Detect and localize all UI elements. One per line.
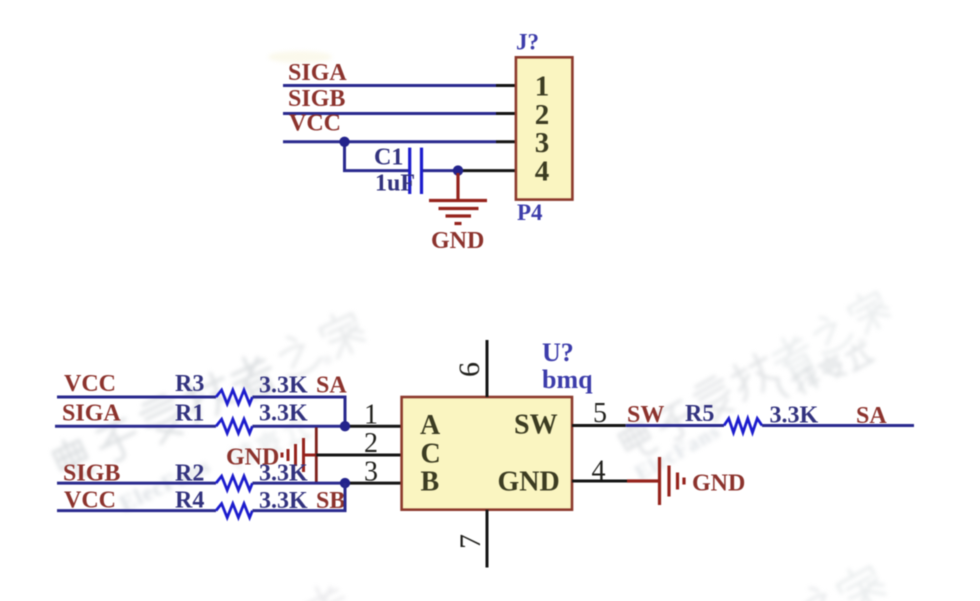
wire SW to R5	[626, 424, 724, 427]
svg-text:3: 3	[364, 457, 378, 488]
svg-text:SA: SA	[316, 373, 347, 399]
watermark fragment bottom left	[298, 579, 353, 601]
pin 4 stub of J?	[458, 169, 516, 172]
svg-text:VCC: VCC	[64, 371, 116, 397]
watermark CJK line left	[51, 306, 369, 483]
pin 6 stub (top)	[486, 340, 489, 397]
component U? body	[402, 397, 572, 510]
resistor R2	[216, 476, 252, 490]
watermark CJK line right	[616, 286, 894, 463]
connector J? body	[516, 57, 573, 199]
pin 2 stub of J?	[496, 112, 516, 115]
svg-text:B: B	[421, 467, 440, 498]
wire SIGA to J? pin 1	[283, 84, 496, 87]
svg-text:C: C	[421, 439, 441, 470]
pin 3 stub of U?	[345, 482, 402, 485]
resistor R3	[216, 390, 252, 404]
svg-text:1uF: 1uF	[375, 171, 415, 197]
wire R1 to junction	[252, 425, 345, 428]
wire C1 to pin4 node	[423, 169, 458, 172]
svg-text:R2: R2	[175, 461, 204, 487]
resistor R1	[216, 419, 252, 433]
svg-text:®: ®	[320, 351, 335, 369]
svg-text:U?: U?	[542, 338, 574, 367]
pin 4 stub (GND)	[572, 480, 627, 483]
wire R5 to SA	[762, 424, 914, 427]
resistor R4	[216, 504, 252, 518]
decorative smudge	[268, 51, 332, 63]
svg-text:3.3K: 3.3K	[259, 401, 308, 427]
wire SIGB to J? pin 2	[283, 112, 496, 115]
pin 1 stub of U?	[345, 425, 402, 428]
svg-text:J?: J?	[516, 30, 539, 55]
pin 3 stub of J?	[496, 140, 516, 143]
svg-text:A: A	[420, 410, 441, 441]
svg-text:2: 2	[535, 99, 550, 131]
capacitor C1	[410, 148, 422, 194]
svg-text:R1: R1	[175, 401, 204, 427]
svg-text:R3: R3	[175, 371, 204, 397]
svg-text:R5: R5	[685, 401, 714, 427]
svg-text:4: 4	[592, 456, 606, 487]
ground symbol (middle, pointing left)	[282, 438, 316, 472]
resistor R5	[724, 419, 762, 433]
watermark ElecFans left	[116, 453, 215, 517]
svg-text:5: 5	[593, 398, 607, 429]
svg-text:(: (	[771, 374, 791, 401]
svg-text:SIGA: SIGA	[62, 401, 121, 427]
ground symbol (top)	[429, 173, 487, 224]
pin 1 stub of J?	[496, 84, 516, 87]
svg-text:3: 3	[535, 127, 550, 159]
svg-text:2: 2	[364, 428, 378, 459]
watermark ElecFans right	[630, 418, 724, 485]
svg-text:GND: GND	[692, 471, 745, 497]
svg-text:P4: P4	[517, 200, 543, 225]
pin 2 stub of U?	[316, 454, 401, 457]
svg-text:GND: GND	[498, 467, 560, 498]
wire VCC row4 to R4	[57, 509, 216, 512]
wire SIGA row2 to R1	[55, 425, 216, 428]
svg-text:C1: C1	[374, 145, 403, 171]
wire R2 to junction	[252, 482, 345, 485]
svg-text:SIGB: SIGB	[288, 86, 345, 112]
wire SIGB row3 to R2	[57, 482, 216, 485]
svg-text:GND: GND	[431, 228, 484, 254]
ground symbol (right, pointing right)	[627, 457, 684, 505]
svg-text:1: 1	[535, 71, 550, 103]
wire R3 to row2 junction	[252, 397, 345, 426]
svg-text:6: 6	[453, 362, 486, 377]
watermark fragment bottom right	[796, 559, 890, 601]
svg-text:7: 7	[454, 534, 487, 549]
svg-text:SW: SW	[514, 410, 558, 441]
wire R4 up to row3 junction	[252, 483, 345, 511]
svg-text:1: 1	[364, 400, 378, 431]
junction row3	[340, 478, 350, 488]
wire VCC branch down to C1	[345, 142, 409, 171]
svg-text:VCC: VCC	[289, 111, 341, 137]
svg-text:4: 4	[535, 155, 550, 187]
pin 7 stub (bottom)	[486, 510, 489, 568]
wire VCC row1 to R3	[57, 396, 216, 399]
junction on VCC wire	[339, 137, 349, 147]
svg-text:3.3K: 3.3K	[259, 373, 308, 399]
wire VCC to J? pin 3	[283, 140, 496, 143]
svg-text:bmq: bmq	[542, 365, 593, 394]
junction row2	[340, 421, 350, 431]
gnd bus wire (maroon vertical)	[315, 428, 318, 484]
svg-text:R4: R4	[175, 488, 204, 514]
junction at pin4/ground	[453, 165, 463, 175]
pin 5 stub (SW)	[572, 424, 626, 427]
svg-text:SIGA: SIGA	[288, 60, 347, 86]
